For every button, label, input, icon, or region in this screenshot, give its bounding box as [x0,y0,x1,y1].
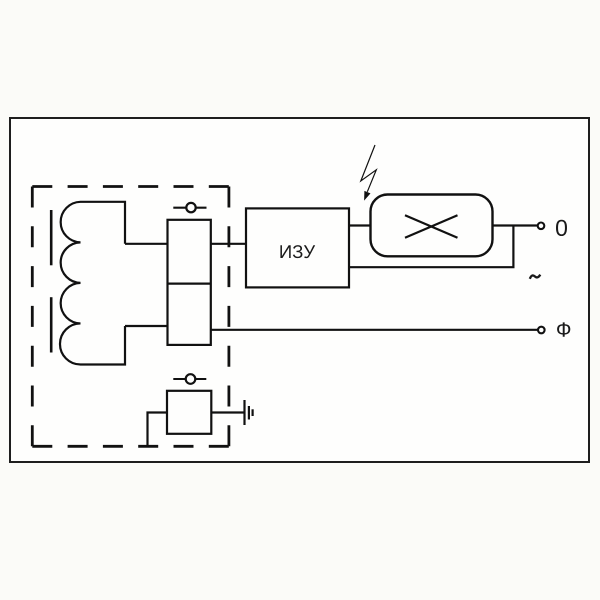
lightning arrow (ignition impulse) [361,145,377,201]
capacitor/ground box [167,391,211,434]
wire: winding bottom to terminal block [125,325,168,327]
wire: terminal block to F terminal [211,329,539,331]
lamp cross electrodes [405,215,458,238]
label 0 [556,220,567,236]
terminal screw symbol above XT1 [173,203,206,212]
wire: IZU to lamp [349,224,371,226]
earth (chassis ground) symbol [245,400,253,425]
label IZU [280,245,315,258]
luminaire housing (dashed enclosure) [32,187,229,447]
ignition unit U1 (IZU) box [246,208,349,287]
wire: winding top to terminal block [125,243,168,245]
wire: IZU return to 0 line [349,226,513,268]
wire: ground box to housing [148,413,168,447]
wire: terminal block to IZU input [211,243,246,245]
label ~ (AC mains) [530,275,541,279]
ballast L1 magnetic core [50,210,53,353]
wire: lamp to 0 terminal [493,224,539,226]
terminal screw symbol above ground box [173,374,206,384]
terminal 0 [538,223,545,230]
lamp EL1 (discharge lamp) [371,195,493,257]
label F [557,322,570,336]
terminal F (phase) [538,327,545,334]
wire: ground box to earth [211,411,244,413]
terminal block XT1 [168,220,211,345]
ballast L1 winding [60,202,125,365]
